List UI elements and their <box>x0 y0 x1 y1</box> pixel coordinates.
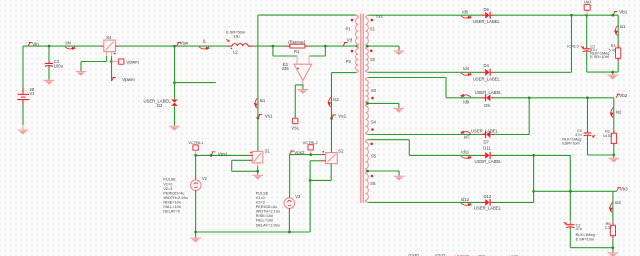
svg-text:V2=3: V2=3 <box>256 201 265 205</box>
svg-text:VSL: VSL <box>291 126 300 131</box>
winding P2 <box>356 49 359 71</box>
port Ua1 <box>584 4 590 10</box>
svg-text:Id11: Id11 <box>461 150 470 155</box>
node <box>532 190 535 193</box>
svg-text:USER_LABEL: USER_LABEL <box>473 77 501 82</box>
svg-text:S2: S2 <box>370 57 376 62</box>
wire <box>612 191 614 222</box>
svg-text:P1: P1 <box>346 26 352 31</box>
wire <box>111 56 113 61</box>
wire <box>272 46 274 56</box>
svg-text:USER_LABEL: USER_LABEL <box>473 19 501 24</box>
switch S2 pin <box>321 160 325 162</box>
winding S6 phase dot <box>371 175 374 178</box>
winding S4 <box>366 106 369 133</box>
diode D3 <box>171 99 178 106</box>
wire Vb2 rail <box>446 97 482 99</box>
capacitor C2 <box>566 222 574 228</box>
wire tap1 <box>368 45 399 47</box>
current probe Id6 <box>461 9 472 19</box>
svg-text:DELAY=0: DELAY=0 <box>163 210 180 214</box>
port stub <box>586 11 588 16</box>
svg-text:D4: D4 <box>484 63 490 68</box>
wire <box>528 98 530 135</box>
switch S4 pin <box>111 52 113 57</box>
op-amp E1 input pin <box>296 56 298 64</box>
svg-text:S5: S5 <box>371 153 377 158</box>
node Vs1 <box>257 117 260 120</box>
node <box>612 246 615 249</box>
winding S2 entry <box>366 46 369 49</box>
svg-text:D6: D6 <box>484 7 490 12</box>
node <box>532 154 535 157</box>
L2 IC mark <box>226 39 229 41</box>
wire Id11 rail <box>409 154 481 156</box>
flag Vps1 <box>211 151 229 156</box>
switch S1 pin <box>249 159 252 161</box>
switch S1 pin <box>257 163 259 167</box>
svg-text:PERIOD=4u: PERIOD=4u <box>163 191 184 195</box>
wire <box>22 105 24 126</box>
wire <box>195 192 197 232</box>
ground <box>298 89 309 94</box>
ground stub <box>612 248 614 253</box>
node S1 ground junction <box>256 170 259 173</box>
switch S4 polarity mark <box>114 53 116 55</box>
winding P2 phase dot <box>351 50 354 53</box>
flag Vd <box>343 38 353 46</box>
ground <box>394 108 405 113</box>
svg-text:FALL=10n: FALL=10n <box>256 219 273 223</box>
ground <box>394 50 405 55</box>
winding S2 phase dot <box>370 50 373 53</box>
svg-text:USER_LABEL: USER_LABEL <box>475 159 503 164</box>
winding S2 exit <box>366 70 369 72</box>
svg-text:13u: 13u <box>233 34 240 39</box>
flag Vb1 <box>613 9 628 15</box>
flag Vb2 <box>616 93 628 98</box>
svg-text:D7: D7 <box>484 139 490 144</box>
source V2 pin <box>195 191 197 193</box>
capacitor C3 <box>45 61 53 67</box>
node Vs2 <box>330 117 333 120</box>
switch S4 pin <box>106 52 108 57</box>
wire <box>309 55 325 57</box>
transformer TX1 core <box>360 14 363 204</box>
node Vps1 <box>210 154 213 157</box>
resistor R3 <box>616 45 621 61</box>
current probe Is1 <box>254 98 266 108</box>
current probe Is2 <box>327 97 339 107</box>
wire Vin rail <box>23 45 100 47</box>
wire tap3 <box>368 170 399 172</box>
ground <box>22 125 24 130</box>
node VCTRL2 junction <box>309 153 312 156</box>
wire <box>586 15 588 46</box>
svg-text:Ua1: Ua1 <box>584 0 591 4</box>
capacitor C5 <box>584 131 592 137</box>
winding S6 entry <box>366 171 369 174</box>
winding S5 phase dot <box>370 143 373 146</box>
svg-text:Is1: Is1 <box>260 98 266 103</box>
port stub <box>310 150 312 155</box>
wire <box>494 201 534 203</box>
wire <box>617 61 619 72</box>
svg-text:5.41: 5.41 <box>609 48 616 52</box>
winding P1 entry <box>356 15 358 18</box>
svg-text:WIDTH=2.19u: WIDTH=2.19u <box>256 210 280 214</box>
diode D12 <box>482 199 494 206</box>
winding S3 exit <box>366 101 369 103</box>
wire <box>232 159 250 161</box>
flag Vs2 <box>332 114 347 119</box>
svg-text:V1: V1 <box>30 91 36 96</box>
op-amp E1 output pin <box>302 81 304 85</box>
switch S2 pin <box>321 154 325 156</box>
winding S1 phase dot <box>371 19 374 22</box>
wire <box>494 97 614 99</box>
wire P1 top rail <box>258 14 356 16</box>
flag Vb3 <box>617 186 629 191</box>
svg-text:RLK=1Meg: RLK=1Meg <box>576 233 595 237</box>
svg-text:Vps1: Vps1 <box>218 151 229 156</box>
svg-text:Vs2: Vs2 <box>338 114 346 119</box>
winding S6 <box>366 174 369 201</box>
node R1 left junction <box>272 45 275 48</box>
svg-text:IC=6.9: IC=6.9 <box>567 45 578 49</box>
wire <box>408 140 410 156</box>
switch S1 <box>252 151 262 163</box>
current probe IL <box>199 38 210 50</box>
ground <box>190 238 201 243</box>
wire Vb3 rail <box>534 190 617 192</box>
svg-text:Id7: Id7 <box>464 135 470 140</box>
ground stub <box>398 103 400 107</box>
node Vb1 <box>612 14 615 17</box>
svg-text:D3: D3 <box>157 103 163 108</box>
wire S6 bottom rail <box>368 201 481 203</box>
node C3 junction <box>48 45 51 48</box>
node S2 loop junction <box>309 179 312 182</box>
node D3 junction <box>173 45 176 48</box>
current probe Io2 <box>610 108 622 118</box>
winding S1 <box>366 18 369 44</box>
wire <box>569 229 571 248</box>
svg-text:Is2: Is2 <box>333 97 339 102</box>
svg-text:Vd: Vd <box>347 38 353 43</box>
wire <box>308 45 356 47</box>
winding P2 entry <box>357 46 359 49</box>
wire <box>48 46 50 61</box>
svg-text:V3: V3 <box>295 194 301 199</box>
ground <box>394 176 405 181</box>
winding S1 entry <box>366 15 369 18</box>
wire <box>587 137 589 155</box>
svg-text:Id12: Id12 <box>461 197 470 202</box>
svg-text:V2: V2 <box>202 176 208 181</box>
svg-text:D12: D12 <box>484 194 492 199</box>
winding S3 entry <box>366 78 369 81</box>
switch S4 lead <box>100 45 103 47</box>
wire <box>106 56 108 61</box>
wire S1 top rail <box>368 14 481 16</box>
wire <box>494 71 572 73</box>
wire <box>290 154 322 156</box>
svg-text:WIDTH=2.19u: WIDTH=2.19u <box>163 196 187 200</box>
winding P1 exit <box>357 44 359 46</box>
port stub <box>112 61 119 63</box>
wire <box>289 155 291 196</box>
diode D4 <box>482 69 494 76</box>
source V3 pin <box>288 208 290 210</box>
op-amp E1 <box>294 64 312 80</box>
wire <box>48 68 50 80</box>
svg-text:14.52: 14.52 <box>603 134 613 138</box>
wire <box>612 239 614 248</box>
node <box>586 96 589 99</box>
node tap2 <box>366 102 369 105</box>
svg-text:Vsw: Vsw <box>180 40 189 45</box>
svg-text:2.37: 2.37 <box>605 226 612 230</box>
wire <box>253 45 287 47</box>
svg-text:Vpwm: Vpwm <box>126 59 139 64</box>
port VCTRL2 <box>308 145 313 150</box>
wire tap2 <box>368 102 399 104</box>
wire <box>257 15 259 151</box>
wire <box>613 98 615 130</box>
svg-text:D9: D9 <box>484 103 490 108</box>
svg-text:USER_LABEL: USER_LABEL <box>474 206 502 211</box>
svg-text:S1: S1 <box>265 148 271 153</box>
node S4 control junction <box>110 60 113 63</box>
svg-text:S4: S4 <box>106 35 112 40</box>
capacitor C1 <box>583 46 591 52</box>
flag Vps2 <box>290 150 305 155</box>
wire block3 return <box>570 247 613 249</box>
winding S1 exit <box>366 44 369 46</box>
switch S1 polarity mark <box>250 152 252 154</box>
svg-text:V2=3: V2=3 <box>163 187 172 191</box>
node V3 ground junction <box>288 231 291 234</box>
voltage source V3 <box>284 198 295 209</box>
wire <box>533 155 535 202</box>
ground <box>76 71 87 76</box>
wire <box>302 85 304 89</box>
flag Vpwm <box>112 77 136 82</box>
resistor R5 <box>610 222 615 238</box>
node tap3 <box>366 170 369 173</box>
winding S5 <box>366 142 369 169</box>
current probe Io1 <box>614 24 626 35</box>
C1 IC arrow <box>581 46 584 48</box>
svg-text:V1=0: V1=0 <box>256 196 265 200</box>
node <box>570 14 573 17</box>
svg-text:E SR=10m: E SR=10m <box>590 55 608 59</box>
svg-text:Io1: Io1 <box>620 24 626 29</box>
flag Vin <box>28 41 39 46</box>
node VCTRL1 junction <box>194 154 197 157</box>
wire <box>288 210 290 232</box>
svg-text:236: 236 <box>282 66 290 71</box>
winding P1 phase dot <box>351 19 354 22</box>
diode D11 <box>482 152 494 159</box>
svg-text:DELAY=1.92u: DELAY=1.92u <box>256 223 280 227</box>
wire S2 bottom rail <box>368 71 481 73</box>
wire S5 top <box>368 139 409 141</box>
current probe Id7 <box>460 131 471 140</box>
svg-text:USER_LABEL: USER_LABEL <box>471 128 499 133</box>
winding S3 <box>366 80 369 101</box>
wire S3 top <box>368 77 446 79</box>
current probe Id12 <box>461 197 472 207</box>
current probe Id4 <box>461 66 472 76</box>
node stub junction <box>173 81 176 84</box>
diode D9 <box>482 94 494 101</box>
ground <box>252 175 263 180</box>
winding P2 exit <box>356 70 358 72</box>
svg-text:S1: S1 <box>370 26 376 31</box>
wire <box>613 147 615 155</box>
wire S4 bottom rail <box>368 134 481 136</box>
svg-text:Vb3: Vb3 <box>620 186 629 191</box>
diode D6 <box>482 12 494 19</box>
source V2 pin <box>195 178 197 180</box>
wire <box>571 15 573 72</box>
svg-text:R1: R1 <box>294 49 300 54</box>
current probe IIN <box>65 41 76 50</box>
svg-text:Vs1: Vs1 <box>265 114 273 119</box>
svg-text:PULSE: PULSE <box>256 191 269 195</box>
wire <box>81 61 107 63</box>
inductor L2 <box>227 44 253 50</box>
node <box>611 71 614 74</box>
current probe Id9 <box>460 94 471 104</box>
node tap1 <box>366 45 369 48</box>
C5 IC arrow <box>592 135 595 137</box>
svg-text:47u: 47u <box>575 133 581 137</box>
node <box>612 154 615 157</box>
ground stub <box>613 155 615 158</box>
svg-text:Vb1: Vb1 <box>619 9 628 14</box>
wire <box>232 170 258 172</box>
ground stub <box>257 171 259 174</box>
current probe Id11 <box>461 150 472 160</box>
wire <box>330 164 332 181</box>
svg-text:E SR=10m: E SR=10m <box>576 238 594 242</box>
switch S1 pin <box>249 154 252 156</box>
ground <box>608 252 619 256</box>
port VCTRL1 <box>193 145 198 150</box>
ground stub <box>398 171 400 176</box>
wire <box>310 160 321 162</box>
svg-text:S2: S2 <box>338 148 344 153</box>
svg-text:S3: S3 <box>371 88 377 93</box>
winding S4 exit <box>366 133 369 135</box>
current probe Io3 <box>609 200 622 213</box>
ground <box>609 158 620 163</box>
wire <box>617 15 619 45</box>
wire block1 return <box>587 71 619 73</box>
node R1 right junction <box>324 45 327 48</box>
flag Vs1 <box>258 114 273 119</box>
svg-text:(Rsense): (Rsense) <box>288 40 306 45</box>
wire Vsw rail <box>119 45 227 47</box>
svg-text:RISE=10n: RISE=10n <box>256 214 273 218</box>
wire <box>111 62 113 82</box>
winding S4 phase dot <box>371 128 374 131</box>
wire <box>196 154 250 156</box>
svg-text:ESR=10m: ESR=10m <box>562 142 579 146</box>
node <box>569 190 572 193</box>
svg-text:100u: 100u <box>54 63 64 68</box>
svg-text:(CFP): (CFP) <box>408 253 419 256</box>
ground <box>44 80 55 85</box>
svg-text:P2: P2 <box>346 59 352 64</box>
voltage source V2 <box>191 180 202 191</box>
wire <box>174 46 176 99</box>
ground stub <box>612 72 614 75</box>
svg-text:Vb2: Vb2 <box>619 93 628 98</box>
svg-text:Io2: Io2 <box>616 109 622 114</box>
node primary tap <box>356 45 359 48</box>
ground stub <box>195 232 197 238</box>
svg-text:Vpwm: Vpwm <box>122 77 135 82</box>
node <box>585 14 588 17</box>
switch S2 polarity mark <box>322 151 324 153</box>
wire <box>332 72 357 74</box>
resistor R2 <box>611 130 616 146</box>
winding S2 <box>366 49 369 71</box>
node <box>528 96 531 99</box>
wire <box>22 46 24 88</box>
winding P1 <box>356 18 359 44</box>
wire <box>195 155 197 178</box>
svg-text:USER_LABEL: USER_LABEL <box>475 90 503 95</box>
switch S2 <box>326 153 338 164</box>
svg-text:Id6: Id6 <box>462 9 468 14</box>
wire <box>324 46 326 56</box>
wire corner <box>569 155 572 221</box>
winding S6 exit <box>366 200 369 202</box>
svg-text:PULSE: PULSE <box>163 178 176 182</box>
svg-text:Id4: Id4 <box>463 66 469 71</box>
port Vpwm <box>119 59 124 64</box>
winding S3 phase dot <box>371 97 374 100</box>
svg-text:PERIOD=4u: PERIOD=4u <box>256 205 277 209</box>
wire <box>294 85 296 118</box>
wire <box>445 78 447 98</box>
svg-text:D11: D11 <box>483 146 491 151</box>
wire <box>494 154 570 156</box>
op-amp E1 input pin <box>308 56 310 64</box>
winding S5 exit <box>366 169 369 172</box>
svg-text:FALL=10n: FALL=10n <box>163 205 180 209</box>
flag Vsw <box>177 40 189 46</box>
ground <box>169 126 180 131</box>
resistor R1 <box>287 44 309 48</box>
wire <box>309 161 311 232</box>
port VSL <box>293 118 298 123</box>
svg-text:V1=0: V1=0 <box>163 182 172 186</box>
ground <box>607 75 618 80</box>
ground stub <box>398 46 400 50</box>
C2 IC arrow <box>564 222 567 224</box>
wire <box>273 55 297 57</box>
port stub <box>195 150 197 155</box>
wire <box>494 134 529 136</box>
svg-text:47u: 47u <box>576 227 582 231</box>
wire <box>310 179 331 181</box>
